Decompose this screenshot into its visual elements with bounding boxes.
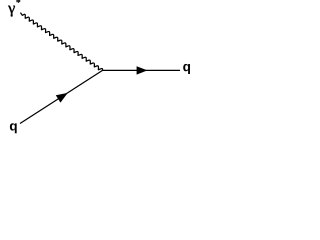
label gamma (photon) xyxy=(8,6,15,17)
label star superscript of gamma xyxy=(16,0,20,3)
label q (incoming quark) xyxy=(10,123,17,133)
photon line gamma* (wavy propagator) xyxy=(21,13,103,70)
arrow on outgoing quark xyxy=(137,66,148,74)
label q (outgoing quark) xyxy=(183,64,190,74)
arrow on incoming quark xyxy=(56,93,68,103)
outgoing quark line xyxy=(103,69,181,71)
incoming quark line xyxy=(20,70,103,123)
